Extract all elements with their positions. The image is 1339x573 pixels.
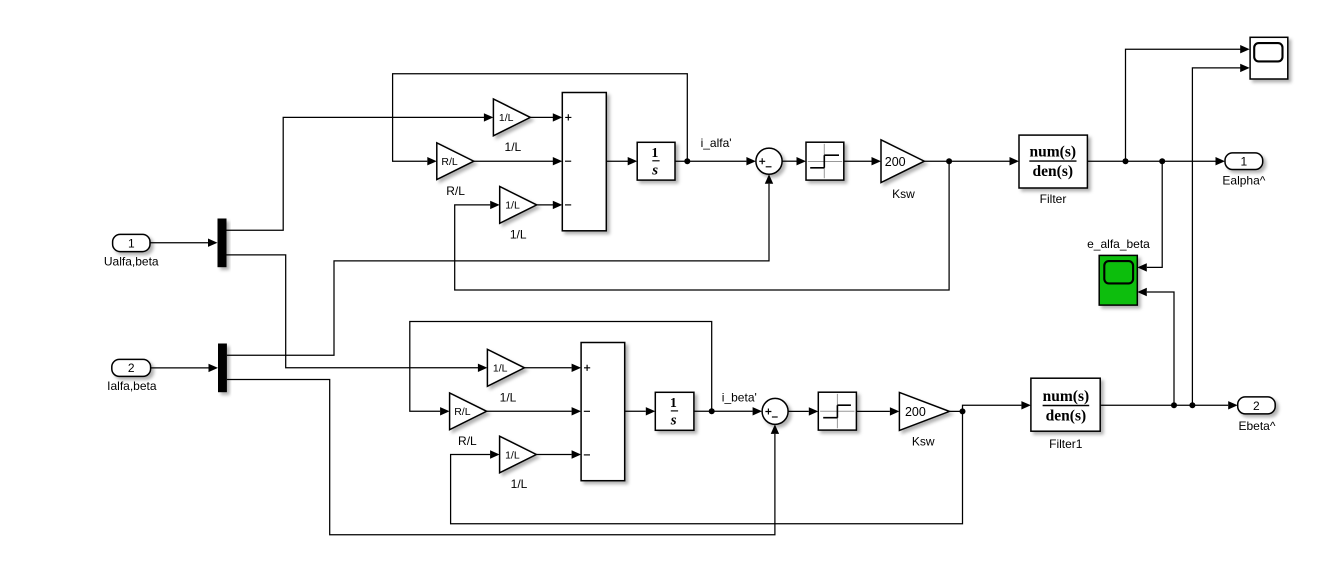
svg-text:Ebeta^: Ebeta^ — [1239, 419, 1276, 433]
svg-text:i_beta': i_beta' — [722, 390, 757, 404]
svg-text:2: 2 — [1253, 399, 1260, 413]
svg-text:1/L: 1/L — [505, 449, 520, 461]
svg-text:R/L: R/L — [446, 184, 465, 198]
svg-text:e_alfa_beta: e_alfa_beta — [1087, 237, 1150, 251]
svg-text:1/L: 1/L — [499, 112, 514, 124]
svg-text:Ealpha^: Ealpha^ — [1222, 174, 1265, 188]
svg-text:1: 1 — [128, 236, 135, 250]
svg-text:i_alfa': i_alfa' — [701, 136, 732, 150]
svg-text:1/L: 1/L — [505, 140, 522, 154]
svg-text:num(s): num(s) — [1043, 388, 1090, 405]
svg-text:R/L: R/L — [441, 156, 458, 168]
svg-text:Ialfa,beta: Ialfa,beta — [107, 379, 157, 393]
svg-text:R/L: R/L — [458, 434, 477, 448]
svg-text:2: 2 — [128, 361, 135, 375]
svg-text:1/L: 1/L — [493, 363, 508, 375]
svg-text:1: 1 — [651, 146, 658, 161]
svg-text:num(s): num(s) — [1030, 144, 1077, 161]
svg-text:200: 200 — [885, 155, 906, 169]
svg-text:s: s — [670, 413, 677, 429]
svg-text:Filter: Filter — [1040, 192, 1067, 206]
svg-text:Ksw: Ksw — [892, 187, 915, 201]
svg-text:Ualfa,beta: Ualfa,beta — [104, 255, 159, 269]
svg-text:Filter1: Filter1 — [1049, 437, 1083, 451]
svg-text:1/L: 1/L — [500, 391, 517, 405]
svg-text:s: s — [651, 163, 658, 179]
svg-text:1: 1 — [1241, 155, 1248, 169]
svg-text:200: 200 — [905, 405, 926, 419]
svg-text:1/L: 1/L — [510, 228, 527, 242]
svg-text:R/L: R/L — [454, 406, 471, 418]
svg-text:1/L: 1/L — [511, 477, 528, 491]
svg-text:Ksw: Ksw — [912, 435, 935, 449]
svg-text:1/L: 1/L — [505, 200, 520, 212]
svg-text:1: 1 — [670, 396, 677, 411]
svg-text:den(s): den(s) — [1046, 407, 1086, 424]
svg-text:den(s): den(s) — [1033, 163, 1073, 180]
